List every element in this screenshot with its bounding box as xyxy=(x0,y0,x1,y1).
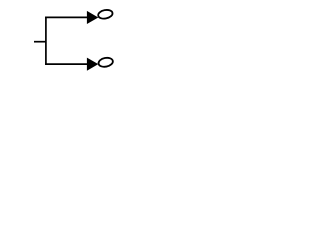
wire vertical trunk xyxy=(45,17,47,65)
wire top branch xyxy=(45,16,87,18)
arrowhead top xyxy=(87,11,98,24)
loop top xyxy=(97,9,113,20)
arrowhead bottom xyxy=(87,58,98,71)
wire input stub xyxy=(34,41,46,43)
wire bottom branch xyxy=(45,63,87,65)
loop bottom xyxy=(98,57,114,68)
